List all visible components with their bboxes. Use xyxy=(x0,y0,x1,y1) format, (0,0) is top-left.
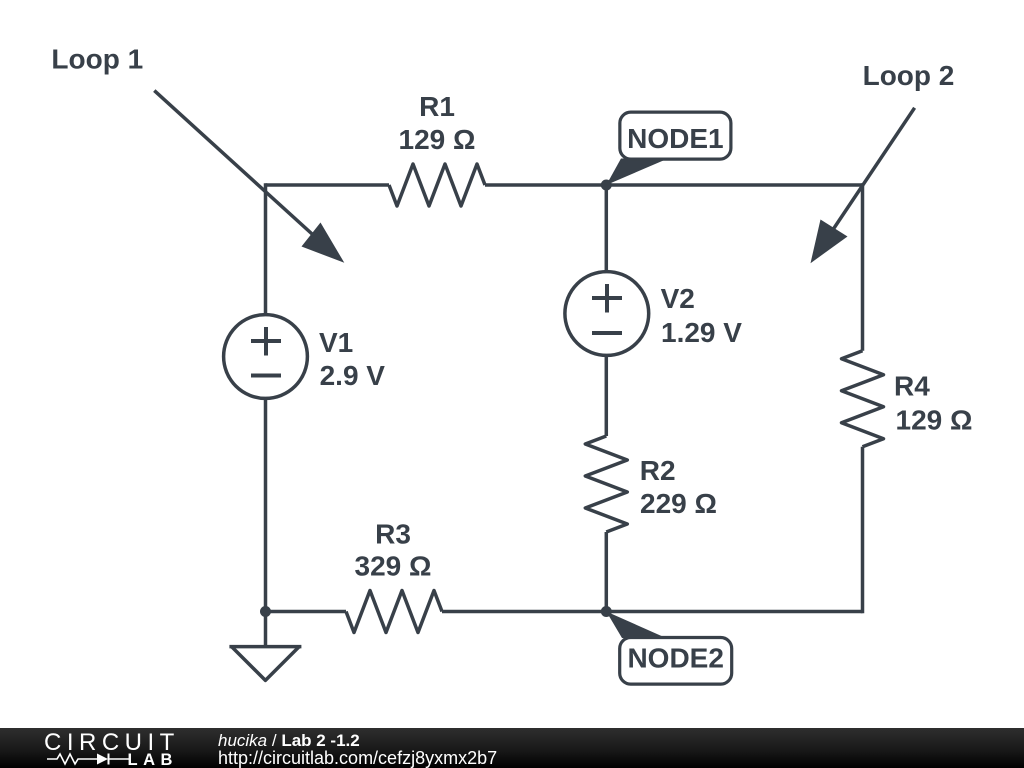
CircuitLab logo CIRCUIT text xyxy=(44,729,180,757)
svg-text:129 Ω: 129 Ω xyxy=(399,124,476,155)
V2 plus sign xyxy=(592,284,622,313)
svg-text:329 Ω: 329 Ω xyxy=(355,551,432,582)
svg-text:Loop 2: Loop 2 xyxy=(863,60,955,91)
node junction dot at NODE2 xyxy=(601,606,612,617)
resistor R2 xyxy=(585,436,627,532)
ground stem xyxy=(264,612,268,647)
wire right rail lower: R4 bottom lead to bottom-right corner xyxy=(861,447,865,613)
CircuitLab logo resistor-diode glyph xyxy=(47,752,133,766)
NODE2 flag pointer tail xyxy=(606,612,666,639)
NODE1 flag box xyxy=(620,112,731,159)
ground symbol triangle top bar xyxy=(229,645,301,649)
Loop 2 arrowhead xyxy=(811,220,848,264)
CircuitLab logo LAB text xyxy=(128,751,178,768)
node junction dot at NODE1 xyxy=(601,180,612,191)
wire left rail upper: corner down to V1 top xyxy=(264,183,268,313)
Loop 2 arrow shaft xyxy=(816,108,915,255)
ground symbol triangle vee xyxy=(232,647,300,681)
svg-text:R4: R4 xyxy=(894,370,930,401)
wire bottom-left junction to R3 left lead xyxy=(266,610,347,614)
svg-text:229 Ω: 229 Ω xyxy=(640,488,717,519)
voltage source V2 xyxy=(565,272,649,356)
voltage source V1 xyxy=(224,315,308,399)
NODE2 flag box xyxy=(620,638,732,685)
svg-text:R2: R2 xyxy=(640,455,676,486)
svg-text:NODE2: NODE2 xyxy=(627,643,723,674)
wire top-left corner to R1 left lead xyxy=(266,183,390,187)
wire R1 right lead to NODE1 junction and on to top-right corner xyxy=(485,183,863,187)
V1 plus sign xyxy=(251,327,281,356)
resistor R3 xyxy=(346,591,442,633)
svg-text:1.29 V: 1.29 V xyxy=(661,317,742,348)
svg-text:V2: V2 xyxy=(661,283,695,314)
Loop 1 arrow shaft xyxy=(154,91,322,243)
wire V2 bottom to R2 top lead xyxy=(605,357,609,436)
wire R2 bottom lead to NODE2 junction xyxy=(605,532,609,612)
svg-text:Loop 1: Loop 1 xyxy=(51,43,143,74)
V1 minus sign xyxy=(251,374,281,378)
wire middle rail upper: NODE1 junction down to V2 top xyxy=(605,185,609,270)
NODE1 flag pointer tail xyxy=(606,159,668,186)
resistor R1 xyxy=(389,164,485,206)
footer url line xyxy=(218,748,497,768)
wire left rail lower: V1 bottom to bottom-left junction xyxy=(264,400,268,612)
V2 minus sign xyxy=(592,331,622,335)
svg-text:NODE1: NODE1 xyxy=(627,123,723,154)
svg-text:V1: V1 xyxy=(319,327,353,358)
node junction dot at ground / bottom-left xyxy=(260,606,271,617)
footer bar xyxy=(0,728,1024,768)
svg-text:R1: R1 xyxy=(419,91,455,122)
wire R3 right lead through NODE2 junction to bottom-right corner xyxy=(442,610,863,614)
wire right rail upper: top-right corner down to R4 top lead xyxy=(861,183,865,351)
footer title line xyxy=(218,731,360,751)
svg-text:129 Ω: 129 Ω xyxy=(896,404,973,435)
svg-text:2.9 V: 2.9 V xyxy=(320,360,386,391)
resistor R4 xyxy=(842,351,884,447)
svg-text:R3: R3 xyxy=(375,519,411,550)
Loop 1 arrowhead xyxy=(302,223,345,263)
